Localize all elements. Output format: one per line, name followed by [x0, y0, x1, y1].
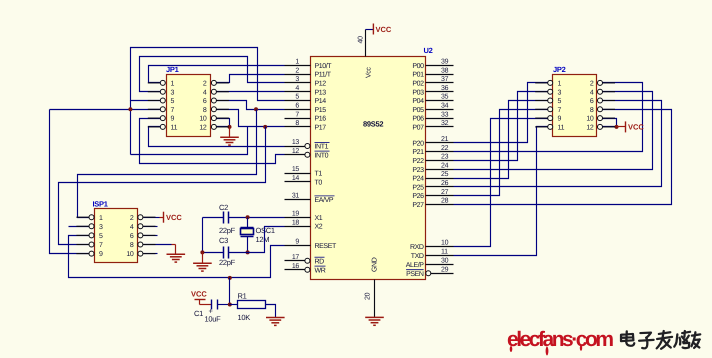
wire net TXD - U2 pin11 to JP2.11	[454, 127, 548, 256]
svg-text:VCC: VCC	[376, 25, 392, 34]
svg-text:Vcc: Vcc	[366, 67, 373, 78]
JP1 pin 1 circle	[160, 80, 165, 85]
svg-text:16: 16	[292, 263, 300, 270]
ISP1 pin 10 circle	[138, 251, 143, 256]
junction at JP1.7 row and x130	[128, 107, 132, 111]
ground symbol at ISP1.8	[167, 254, 186, 262]
U2 pin 32 stub (P07)	[426, 126, 454, 128]
wire net P25 - U2 pin26 to JP2.6	[454, 101, 662, 187]
power VCC symbol at U2 pin 40	[372, 24, 374, 35]
power VCC symbol at JP2.12	[625, 121, 627, 132]
U2 pin 31 stub (EA/VP)	[285, 199, 311, 201]
svg-text:31: 31	[292, 193, 300, 200]
svg-text:9: 9	[558, 116, 562, 123]
JP2 right pin stubs	[603, 83, 616, 127]
JP2 pin 2 circle	[598, 80, 603, 85]
JP1 pin 3 circle	[160, 89, 165, 94]
U2 pin 21 stub (P20)	[426, 142, 454, 144]
junction C1 R1 reset node	[228, 303, 232, 307]
svg-text:6: 6	[203, 98, 207, 105]
svg-text:EA/VP: EA/VP	[315, 196, 334, 204]
svg-text:P12: P12	[315, 81, 327, 88]
svg-text:10: 10	[441, 239, 449, 246]
svg-text:P13: P13	[315, 89, 327, 96]
JP2 left pin stubs	[535, 83, 548, 127]
U2 pin 24 stub (P23)	[426, 169, 454, 171]
svg-text:4: 4	[295, 85, 299, 92]
svg-text:INT0: INT0	[315, 152, 329, 159]
wire ground stem JP1.12	[229, 127, 231, 138]
ISP1 pin 2 circle	[138, 215, 143, 220]
svg-text:P23: P23	[412, 167, 424, 174]
svg-text:VCC: VCC	[166, 213, 182, 222]
svg-text:1: 1	[171, 81, 175, 88]
wire net P20 - U2 pin21 to JP2.1	[454, 83, 548, 143]
svg-text:ISP1: ISP1	[93, 200, 108, 209]
svg-text:5: 5	[99, 233, 103, 240]
wire JP1.10 to JP1.12 ground	[217, 119, 230, 127]
U2 pin 25 stub (P24)	[426, 178, 454, 180]
wire net P23 - U2 pin24 to JP2.4	[454, 92, 653, 170]
svg-text:VCC: VCC	[191, 290, 207, 299]
wire ISP1.8 stub to ground	[144, 244, 172, 246]
svg-text:21: 21	[441, 136, 449, 143]
wire net P24 - U2 pin25 to JP2.5	[454, 101, 548, 179]
junction reset net to C1/R1	[228, 276, 232, 280]
svg-text:5: 5	[558, 98, 562, 105]
capacitor C3	[224, 247, 229, 259]
U2 pin 26 stub (P25)	[426, 186, 454, 188]
ground symbol below JP1	[220, 137, 239, 145]
U2 pin 38 stub (P01)	[426, 74, 454, 76]
svg-text:P03: P03	[412, 89, 424, 96]
junction at JP1.12 ground node	[228, 125, 232, 129]
svg-text:5: 5	[295, 94, 299, 101]
wire R1 to ground	[266, 305, 276, 318]
junction ISP1.7 tap on pin8 row	[263, 125, 267, 129]
svg-text:4: 4	[130, 224, 134, 231]
wire crystal bottom stem	[247, 237, 249, 253]
U2 pin 11 stub (TXD)	[426, 255, 454, 257]
wire C1 right plate to reset node	[218, 304, 230, 306]
U2 pin 29 active-low bubble	[426, 271, 431, 276]
wire net RXD - U2 pin10 to JP2.9	[454, 119, 548, 247]
U2 pin 29 stub (PSEN)	[431, 273, 454, 275]
svg-text:C1: C1	[194, 309, 203, 318]
svg-text:33: 33	[441, 111, 449, 118]
ISP1 pin 3 circle	[89, 224, 94, 229]
svg-text:P27: P27	[412, 202, 424, 209]
svg-text:7: 7	[295, 111, 299, 118]
U2 pin 2 stub (P11/T)	[285, 74, 311, 76]
JP2 pin 10 circle	[598, 116, 603, 121]
svg-text:19: 19	[292, 211, 300, 218]
U2 pin 16 active-low bubble	[305, 267, 310, 272]
svg-text:10K: 10K	[238, 313, 251, 322]
svg-text:P21: P21	[412, 149, 424, 156]
svg-text:8: 8	[590, 107, 594, 114]
svg-text:PSEN: PSEN	[406, 271, 424, 278]
svg-text:P02: P02	[412, 81, 424, 88]
JP2 pin 6 circle	[598, 98, 603, 103]
U2 pin 22 stub (P21)	[426, 151, 454, 153]
U2 pin 15 stub (T1)	[285, 173, 311, 175]
wire crystal top stem	[247, 218, 249, 228]
svg-text:6: 6	[295, 103, 299, 110]
svg-text:P07: P07	[412, 125, 424, 132]
capacitor C1 (polarized)	[212, 300, 218, 310]
U2 pin 7 stub (P16)	[285, 118, 311, 120]
wire JP2.12 to VCC bar	[617, 126, 626, 128]
svg-text:R1: R1	[238, 292, 247, 301]
svg-text:18: 18	[292, 219, 300, 226]
ISP1 pin 1 circle	[89, 215, 94, 220]
svg-text:38: 38	[441, 67, 449, 74]
svg-text:X2: X2	[315, 224, 323, 231]
wire JP1.7 row horizontal	[50, 109, 161, 111]
svg-text:P00: P00	[412, 63, 424, 70]
ISP1 left pin stubs	[76, 217, 89, 253]
ISP1 pin 6 circle	[138, 233, 143, 238]
JP2 pin 5 circle	[548, 98, 553, 103]
wire pin40 to VCC	[366, 29, 374, 31]
wire net P13 - JP1.4 to U2 pin4	[217, 91, 285, 93]
JP2 pin 4 circle	[598, 89, 603, 94]
wire VCC to C1 left plate	[200, 304, 212, 306]
svg-text:P20: P20	[412, 140, 424, 147]
svg-text:GND: GND	[372, 257, 379, 272]
svg-text:ALE/P: ALE/P	[406, 261, 425, 269]
svg-text:14: 14	[292, 175, 300, 182]
svg-text:P17: P17	[315, 125, 327, 132]
watermark chinese characters dian zi fa shao you	[621, 331, 700, 349]
svg-text:10: 10	[586, 116, 594, 123]
svg-text:7: 7	[99, 242, 103, 249]
U2 pin 12 stub (INT0)	[285, 154, 305, 156]
svg-text:WR: WR	[315, 267, 326, 274]
junction caps common to ground	[200, 250, 204, 254]
junction ISP1.1 tap on pin6 row	[254, 107, 258, 111]
svg-text:20: 20	[365, 292, 372, 300]
svg-text:12: 12	[586, 125, 594, 132]
wire net P27 - U2 pin28 to JP2.8	[454, 110, 672, 205]
svg-text:JP1: JP1	[166, 65, 179, 74]
ground symbol at R1	[266, 318, 285, 326]
wire X1 row left of cap C2	[203, 217, 224, 219]
svg-text:3: 3	[558, 89, 562, 96]
svg-text:4: 4	[590, 89, 594, 96]
JP1 right pin stubs	[216, 83, 229, 127]
U2 pin 14 stub (T0)	[285, 181, 311, 183]
U2 pin 13 active-low bubble	[305, 144, 310, 149]
svg-text:22pF: 22pF	[219, 258, 236, 267]
ISP1 pin 5 circle	[89, 233, 94, 238]
svg-text:13: 13	[292, 139, 300, 146]
svg-text:P14: P14	[315, 98, 327, 105]
svg-text:9: 9	[99, 251, 103, 258]
svg-text:89S52: 89S52	[363, 120, 383, 129]
ISP1 right pin stubs	[143, 217, 156, 253]
svg-text:RXD: RXD	[410, 244, 424, 251]
svg-text:P11/T: P11/T	[315, 71, 332, 79]
svg-text:U2: U2	[424, 46, 433, 55]
wire ISP1.2 stub to VCC	[144, 217, 160, 219]
wire net P10 - JP1.1 to U2 pin1	[149, 66, 285, 83]
wire ISP1.10 stub	[144, 253, 158, 255]
JP1 pin 5 circle	[160, 98, 165, 103]
U2 pin 36 stub (P03)	[426, 91, 454, 93]
U2 pin 10 stub (RXD)	[426, 246, 454, 248]
svg-text:12: 12	[292, 148, 300, 155]
ISP1 pin 9 circle	[89, 251, 94, 256]
svg-text:39: 39	[441, 59, 449, 66]
junction crystal top on X1 net	[246, 215, 250, 219]
JP1 pin 7 circle	[160, 107, 165, 112]
wire ground stem ISP1.8	[175, 245, 177, 255]
wire net JP1.6 dogleg to U2 pin6 row	[217, 101, 285, 110]
svg-text:OSC1: OSC1	[256, 226, 275, 235]
svg-text:P15: P15	[315, 107, 327, 114]
svg-text:4: 4	[203, 89, 207, 96]
svg-text:P22: P22	[412, 158, 424, 165]
U2 pin 30 stub (ALE/P)	[426, 264, 454, 266]
wire reset net down to C1/R1 node	[229, 278, 231, 305]
svg-text:24: 24	[441, 162, 449, 169]
JP1 pin 12 circle	[211, 124, 216, 129]
svg-text:11: 11	[441, 249, 448, 256]
svg-text:3: 3	[295, 76, 299, 83]
svg-text:26: 26	[441, 180, 449, 187]
wire ISP1.5 to reset node	[69, 236, 285, 278]
U2 pin 19 stub (X1)	[285, 217, 311, 219]
svg-text:30: 30	[441, 258, 449, 265]
svg-text:10uF: 10uF	[205, 315, 222, 324]
svg-text:6: 6	[590, 98, 594, 105]
svg-text:3: 3	[171, 89, 175, 96]
svg-text:8: 8	[295, 120, 299, 127]
wire net INT0 - JP1.9 to U2 pin12	[140, 119, 285, 164]
svg-text:P26: P26	[412, 193, 424, 200]
svg-text:P24: P24	[412, 176, 424, 183]
wire ISP1.3 stub	[69, 226, 89, 228]
svg-text:2: 2	[130, 215, 134, 222]
svg-text:12M: 12M	[256, 235, 270, 244]
svg-text:1: 1	[558, 81, 562, 88]
svg-text:P05: P05	[412, 107, 424, 114]
svg-text:6: 6	[130, 233, 134, 240]
wire caps common vertical	[202, 218, 204, 253]
JP2 pin 7 circle	[548, 107, 553, 112]
U2 pin 40 stub (Vcc)	[365, 30, 367, 57]
svg-text:P04: P04	[412, 98, 424, 105]
U2 pin 35 stub (P04)	[426, 100, 454, 102]
U2 pin 17 active-low bubble	[305, 258, 310, 263]
JP1 pin 10 circle	[211, 116, 216, 121]
svg-text:2: 2	[590, 81, 594, 88]
ISP1 pin 8 circle	[138, 242, 143, 247]
svg-text:2: 2	[295, 67, 299, 74]
wire JP1.5 net vertical continues down to INT0 branch	[130, 101, 132, 155]
JP2 pin 8 circle	[598, 107, 603, 112]
watermark drip decorations	[510, 345, 583, 355]
wire net P21 - U2 pin22 to JP2.2	[454, 83, 643, 152]
svg-text:12: 12	[199, 125, 207, 132]
wire reset node to R1	[230, 304, 238, 306]
svg-text:15: 15	[292, 166, 300, 173]
U2 pin 20 stub (GND)	[374, 280, 376, 318]
svg-text:10: 10	[126, 251, 134, 258]
svg-text:23: 23	[441, 154, 449, 161]
svg-text:2: 2	[203, 81, 207, 88]
ISP1 pin 4 circle	[138, 224, 143, 229]
svg-text:INT1: INT1	[315, 144, 329, 151]
JP2 pin 9 circle	[548, 116, 553, 121]
U2 pin 6 stub (P15)	[285, 109, 311, 111]
svg-text:T1: T1	[315, 171, 323, 178]
wire net P26 - U2 pin27 to JP2.7	[454, 110, 548, 196]
JP2 pin 11 circle	[548, 124, 553, 129]
svg-text:3: 3	[99, 224, 103, 231]
svg-text:8: 8	[203, 107, 207, 114]
svg-text:T0: T0	[315, 179, 323, 186]
wire X2 net - U2 pin18 down to crystal bottom row	[229, 227, 285, 253]
U2 pin 1 stub (P10/T)	[285, 65, 311, 67]
svg-text:P16: P16	[315, 116, 327, 123]
svg-text:11: 11	[171, 125, 178, 132]
svg-text:25: 25	[441, 171, 449, 178]
wire ground stem crystal caps	[202, 253, 204, 264]
U2 pin 5 stub (P14)	[285, 100, 311, 102]
wire INT branch horizontal y154.7	[131, 127, 248, 155]
JP1 pin 6 circle	[211, 98, 216, 103]
wire JP2.10 down to JP2.12 VCC node	[603, 119, 617, 127]
svg-text:5: 5	[171, 98, 175, 105]
svg-text:C3: C3	[219, 236, 228, 245]
svg-text:P25: P25	[412, 184, 424, 191]
U2 pin 16 stub (WR)	[285, 269, 305, 271]
JP1 pin 9 circle	[160, 116, 165, 121]
svg-text:7: 7	[558, 107, 562, 114]
wire ISP1.6 stub	[144, 235, 158, 237]
svg-text:JP2: JP2	[553, 65, 566, 74]
wire ISP1.9 up to JP1.7 row	[50, 110, 89, 254]
U2 pin 8 stub (P17)	[285, 126, 311, 128]
svg-text:22: 22	[441, 145, 449, 152]
wire net P11 - JP1.2 to U2 pin2	[217, 75, 285, 83]
op-amp U1 -- main MCU U2 89S52 body	[311, 57, 426, 280]
ground symbol at U2 pin 20	[365, 317, 384, 325]
JP1 pin 8 circle	[211, 107, 216, 112]
svg-text:1: 1	[295, 59, 299, 66]
U2 pin 18 stub (X2)	[285, 226, 311, 228]
svg-text:9: 9	[295, 239, 299, 246]
svg-text:29: 29	[441, 267, 449, 274]
U2 pin 27 stub (P26)	[426, 195, 454, 197]
wire X1 row right of cap C2 to U2 pin19	[229, 217, 285, 219]
svg-text:P01: P01	[412, 72, 424, 79]
svg-text:X1: X1	[315, 215, 323, 222]
wire net P14 loop - JP1.5 over the top to U2 pin5	[131, 48, 285, 101]
U2 pin 37 stub (P02)	[426, 82, 454, 84]
svg-text:C2: C2	[219, 203, 228, 212]
svg-text:8: 8	[130, 242, 134, 249]
svg-text:RESET: RESET	[315, 243, 337, 250]
svg-text:elecfans·com: elecfans·com	[507, 328, 613, 351]
svg-text:9: 9	[171, 116, 175, 123]
JP2 pin 12 circle	[598, 124, 603, 129]
ISP1 pin 7 circle	[89, 242, 94, 247]
JP2 pin 3 circle	[548, 89, 553, 94]
wire net INT1 - JP1.11 to U2 pin13	[149, 127, 285, 147]
wire C3 row left segment	[203, 252, 224, 254]
U2 pin 34 stub (P05)	[426, 109, 454, 111]
U2 pin 33 stub (P06)	[426, 118, 454, 120]
U2 pin 9 stub (RESET)	[285, 245, 311, 247]
JP1 pin 2 circle	[211, 80, 216, 85]
svg-text:32: 32	[441, 120, 449, 127]
junction at JP2.12 VCC node	[615, 125, 619, 129]
JP1 left pin stubs	[148, 83, 161, 127]
U2 pin 28 stub (P27)	[426, 204, 454, 206]
svg-text:27: 27	[441, 189, 449, 196]
svg-text:1: 1	[99, 215, 103, 222]
U2 pin 23 stub (P22)	[426, 160, 454, 162]
JP1 pin 11 circle	[160, 124, 165, 129]
svg-text:RD: RD	[315, 258, 325, 265]
svg-text:22pF: 22pF	[219, 226, 236, 235]
svg-text:35: 35	[441, 94, 449, 101]
svg-text:34: 34	[441, 103, 449, 110]
U2 pin 13 stub (INT1)	[285, 146, 305, 148]
resistor R1	[238, 301, 266, 309]
wire ISP1.1 riser to pin6 row	[78, 110, 257, 218]
svg-text:17: 17	[292, 254, 300, 261]
wire ISP1.4 stub	[144, 226, 158, 228]
wire ISP1.7 riser to pin8 row	[59, 127, 266, 245]
junction crystal bottom on X2 net	[246, 250, 250, 254]
svg-text:37: 37	[441, 76, 449, 83]
svg-text:11: 11	[558, 125, 565, 132]
svg-text:36: 36	[441, 85, 449, 92]
svg-text:P10/T: P10/T	[315, 62, 333, 70]
connector JP2 body	[553, 75, 597, 137]
U2 pin 12 active-low bubble	[305, 152, 310, 157]
U2 pin 4 stub (P13)	[285, 91, 311, 93]
U2 pin 39 stub (P00)	[426, 65, 454, 67]
svg-text:P06: P06	[412, 116, 424, 123]
svg-text:VCC: VCC	[628, 123, 644, 132]
JP2 pin 1 circle	[548, 80, 553, 85]
ground symbol for crystal caps	[193, 263, 212, 271]
wire net P22 - U2 pin23 to JP2.3	[454, 92, 548, 161]
svg-text:28: 28	[441, 198, 449, 205]
U2 pin 17 stub (RD)	[285, 260, 305, 262]
connector ISP1 body	[95, 209, 138, 263]
JP1 pin 4 circle	[211, 89, 216, 94]
connector JP1 body	[167, 75, 211, 137]
crystal OSC1	[241, 228, 254, 237]
svg-text:7: 7	[171, 107, 175, 114]
wire net P12 - JP1.3 to U2 pin3	[140, 57, 285, 92]
svg-text:40: 40	[358, 36, 365, 44]
capacitor C2	[224, 212, 229, 224]
power VCC symbol at ISP1.2	[163, 212, 165, 223]
svg-text:TXD: TXD	[411, 253, 424, 260]
wire net JP1.8 to U2 pin8 row (P17)	[217, 110, 285, 127]
svg-text:10: 10	[199, 116, 207, 123]
U2 pin 3 stub (P12)	[285, 82, 311, 84]
